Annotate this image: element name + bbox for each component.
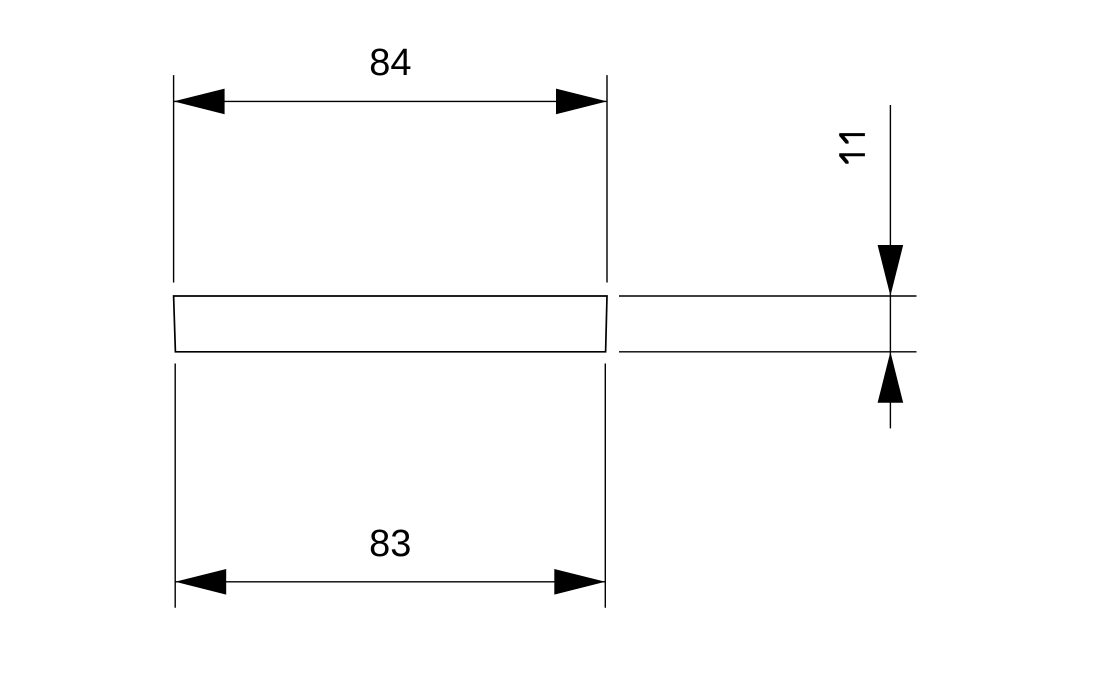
dimension 84: right arrowhead bbox=[556, 89, 607, 115]
dimension 11: upper arrowhead (points down to top face) bbox=[878, 245, 904, 296]
dimension 11: vertical dimension line bbox=[889, 105, 891, 428]
dimension 84: right extension line bbox=[606, 75, 608, 282]
dimension 83: dimension line bbox=[175, 581, 605, 583]
dimension 83: left extension line bbox=[174, 364, 176, 608]
dimension 11: top extension line bbox=[619, 295, 917, 297]
svg-text:83: 83 bbox=[369, 523, 411, 565]
dimension 11: value label "11" (rotated, drawn as paths) bbox=[839, 133, 865, 164]
dimension 84: left extension line bbox=[173, 75, 175, 282]
part outline (flat bar cross-section, trapezoid) bbox=[174, 296, 607, 352]
dimension 83: left arrowhead bbox=[175, 569, 226, 595]
svg-text:84: 84 bbox=[369, 42, 411, 84]
dimension 84: dimension line bbox=[174, 100, 607, 102]
dimension 84: left arrowhead bbox=[174, 89, 225, 115]
dimension 83: right extension line bbox=[604, 364, 606, 608]
dimension 11: lower arrowhead (points up to bottom face) bbox=[878, 352, 904, 403]
dimension 11: bottom extension line bbox=[619, 351, 917, 353]
dimension 83: right arrowhead bbox=[554, 569, 605, 595]
